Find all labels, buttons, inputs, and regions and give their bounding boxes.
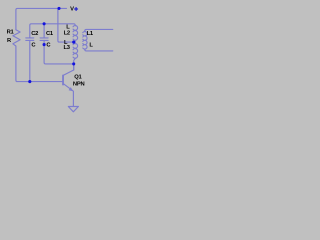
svg-text:R1: R1 bbox=[7, 30, 15, 36]
svg-text:V: V bbox=[70, 6, 74, 12]
svg-text:C1: C1 bbox=[46, 31, 54, 37]
svg-text:NPN: NPN bbox=[73, 82, 85, 88]
svg-text:L1: L1 bbox=[87, 31, 94, 37]
svg-text:L3: L3 bbox=[64, 45, 71, 51]
svg-text:Q1: Q1 bbox=[74, 75, 82, 81]
svg-text:C2: C2 bbox=[31, 31, 38, 37]
svg-text:L2: L2 bbox=[64, 31, 70, 37]
